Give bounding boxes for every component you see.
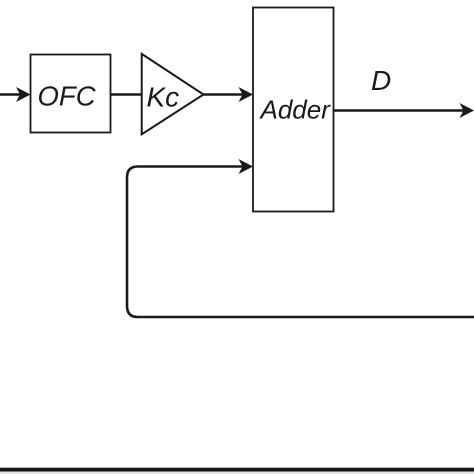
arrowhead into Adder top input bbox=[239, 87, 254, 102]
arrowhead into Adder feedback input bbox=[239, 159, 254, 174]
amplifier Kc bbox=[142, 54, 204, 134]
block Adder bbox=[253, 8, 334, 212]
bottom rule bbox=[0, 468, 474, 472]
svg-text:OFC: OFC bbox=[38, 81, 96, 112]
wire OFC to Kc bbox=[111, 93, 143, 96]
wire input to OFC bbox=[0, 93, 21, 96]
wire Adder output D bbox=[334, 109, 465, 112]
svg-text:D: D bbox=[371, 65, 391, 96]
arrowhead output right edge bbox=[460, 103, 474, 118]
bottom gray strip bbox=[0, 472, 474, 474]
svg-text:Adder: Adder bbox=[259, 95, 332, 125]
wire Kc to Adder bbox=[204, 93, 244, 96]
arrowhead into OFC bbox=[16, 87, 31, 102]
block OFC bbox=[31, 55, 111, 133]
svg-text:Kc: Kc bbox=[147, 82, 180, 113]
feedback wire bbox=[127, 167, 474, 318]
